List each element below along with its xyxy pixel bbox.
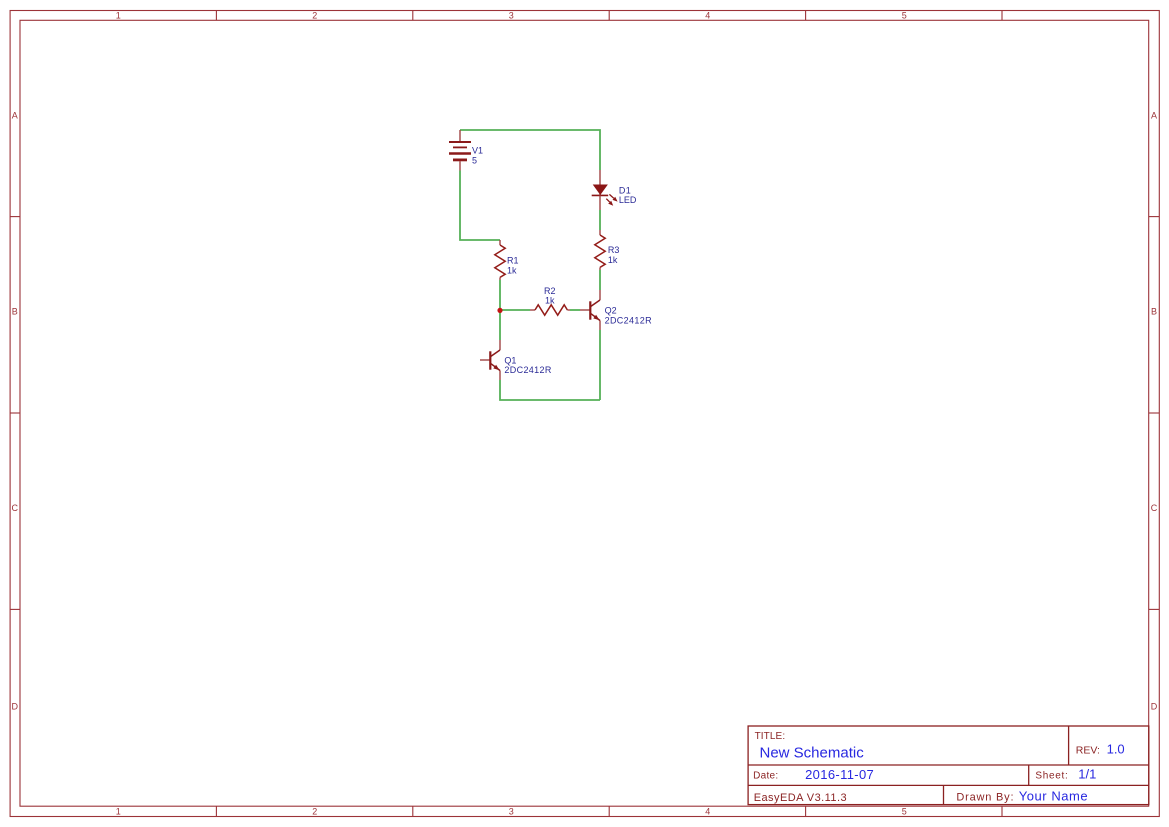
svg-text:3: 3: [509, 807, 514, 817]
TITLE BLOCK: [748, 726, 1149, 805]
svg-text:C: C: [11, 503, 18, 513]
svg-text:Q2: Q2: [605, 306, 617, 316]
svg-text:3: 3: [509, 11, 514, 21]
svg-text:1/1: 1/1: [1078, 767, 1096, 782]
LED D1: [592, 170, 618, 210]
svg-text:2DC2412R: 2DC2412R: [504, 365, 551, 375]
label R1 1k: [507, 256, 519, 276]
svg-text:TITLE:: TITLE:: [755, 731, 786, 742]
wire R1 bottom to node: [499, 280, 501, 310]
svg-text:Drawn By:: Drawn By:: [956, 792, 1014, 804]
svg-text:A: A: [1151, 110, 1157, 120]
svg-text:2: 2: [312, 807, 317, 817]
svg-text:2: 2: [312, 11, 317, 21]
wire R2 to Q2 base: [570, 309, 580, 311]
label R2 1k: [544, 286, 556, 305]
svg-text:D: D: [1151, 701, 1158, 711]
svg-text:1k: 1k: [507, 265, 517, 275]
svg-text:2016-11-07: 2016-11-07: [805, 767, 874, 782]
svg-text:Your Name: Your Name: [1019, 789, 1089, 804]
svg-text:1.0: 1.0: [1107, 741, 1125, 756]
svg-text:5: 5: [902, 807, 907, 817]
CIRCUIT: [449, 130, 652, 400]
svg-text:1k: 1k: [545, 295, 555, 305]
wire node to Q1 collector: [499, 310, 501, 340]
wire net VCC top: [460, 130, 600, 170]
resistor R3: [595, 230, 605, 270]
wire battery minus to R1: [460, 171, 500, 241]
wire Q1 emitter to bottom rail: [500, 380, 600, 400]
svg-text:Sheet:: Sheet:: [1035, 771, 1068, 782]
svg-text:1: 1: [116, 11, 121, 21]
svg-text:1k: 1k: [608, 255, 618, 265]
svg-text:B: B: [12, 306, 18, 316]
wire LED cathode to R3: [599, 210, 601, 230]
label D1 LED: [619, 185, 637, 205]
label Q2 2DC2412R: [605, 306, 652, 326]
svg-text:R1: R1: [507, 256, 519, 266]
resistor R2: [530, 305, 570, 315]
transistor Q2: [580, 290, 600, 330]
svg-text:LED: LED: [619, 195, 637, 205]
junction node dot: [497, 308, 502, 313]
svg-text:R3: R3: [608, 245, 620, 255]
label R3 1k: [608, 245, 620, 265]
svg-text:5: 5: [472, 155, 477, 165]
svg-text:2DC2412R: 2DC2412R: [605, 315, 652, 325]
svg-text:New Schematic: New Schematic: [760, 745, 865, 762]
label V1: [472, 146, 483, 166]
svg-text:4: 4: [705, 807, 710, 817]
svg-text:B: B: [1151, 306, 1157, 316]
svg-text:A: A: [12, 110, 18, 120]
svg-text:EasyEDA V3.11.3: EasyEDA V3.11.3: [754, 792, 847, 804]
label Q1 2DC2412R: [504, 355, 551, 375]
svg-text:REV:: REV:: [1076, 744, 1100, 756]
wire R3 to Q2 collector: [599, 270, 601, 290]
svg-text:1: 1: [116, 807, 121, 817]
resistor R1: [495, 240, 505, 280]
wire Q2 emitter down: [599, 330, 601, 400]
svg-text:V1: V1: [472, 146, 483, 156]
battery V1: [449, 130, 471, 171]
svg-text:Date:: Date:: [753, 771, 778, 782]
svg-text:Q1: Q1: [504, 355, 516, 365]
svg-text:4: 4: [705, 11, 710, 21]
svg-text:5: 5: [902, 11, 907, 21]
svg-text:D1: D1: [619, 185, 631, 195]
transistor Q1: [480, 340, 500, 380]
svg-text:C: C: [1151, 503, 1158, 513]
svg-text:D: D: [11, 701, 18, 711]
wire node to R2: [500, 309, 530, 311]
